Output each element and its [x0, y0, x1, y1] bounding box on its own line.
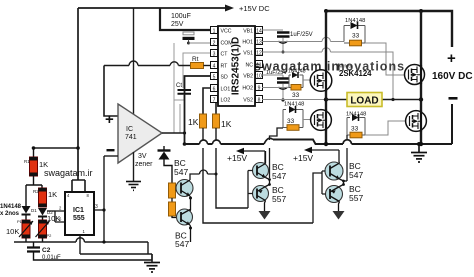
svg-text:+15V: +15V — [293, 153, 313, 163]
resistor Rb (base chain bottom) — [169, 202, 176, 216]
svg-text:1N4148: 1N4148 — [345, 18, 365, 24]
555 pin stubs — [55, 211, 65, 222]
svg-text:100uF: 100uF — [171, 13, 191, 20]
svg-text:2: 2 — [213, 41, 216, 47]
wire driver1 PNP collector to ground arrow — [265, 201, 266, 212]
wire R1 to diode node — [26, 176, 42, 206]
bus right half-bridge x=421 — [420, 11, 422, 144]
transistor Q1 BC547 (zener stage top) — [176, 180, 193, 197]
svg-text:LOAD: LOAD — [350, 96, 378, 107]
ground arrow driver2 — [333, 211, 345, 220]
svg-text:RT: RT — [221, 64, 229, 70]
svg-text:VB1: VB1 — [243, 29, 253, 35]
svg-text:R1: R1 — [24, 159, 30, 164]
wire RT line y=65.5 with hops at x=133.5 and x=174 — [104, 65, 191, 67]
mosfet M3 — [311, 110, 332, 131]
driver2 +15V arrow — [307, 150, 339, 162]
555 ground pin with hop under y=242 — [80, 235, 152, 254]
LOAD box — [347, 93, 382, 107]
mosfet M1 2SK4124 — [310, 70, 332, 92]
mosfet M2 2SK4124 — [405, 65, 425, 85]
wire driver1 output up to network C — [270, 128, 284, 178]
wire 555 supply split — [72, 180, 85, 192]
capacitor C2 0.01uF — [33, 242, 35, 247]
pot P2 10K — [39, 220, 47, 238]
svg-text:7: 7 — [213, 98, 216, 104]
svg-text:R2: R2 — [33, 189, 39, 194]
wire pots to bottom rail — [26, 238, 43, 242]
svg-text:547: 547 — [349, 170, 363, 180]
diode D1 1N4148 — [22, 206, 31, 214]
wire VS2 / load line — [262, 99, 326, 101]
wire left vertical from +15V rail — [77, 8, 79, 180]
wire VCC drop x=160 — [160, 8, 211, 30]
svg-text:1N4148: 1N4148 — [284, 102, 304, 108]
label 160V DC minus — [449, 97, 458, 100]
wire cap to COM pin2 — [189, 42, 212, 44]
wire CT line x=183 — [183, 53, 211, 88]
svg-text:VB2: VB2 — [243, 74, 253, 80]
HV bus rail y=11 — [326, 11, 452, 47]
svg-text:1: 1 — [213, 29, 216, 35]
svg-text:D1: D1 — [31, 208, 37, 213]
wire inverting input down to 555 out — [103, 156, 105, 242]
svg-text:x 2nos: x 2nos — [0, 211, 20, 217]
svg-text:P1: P1 — [17, 219, 23, 224]
svg-text:557: 557 — [272, 194, 286, 204]
svg-text:1K: 1K — [48, 190, 57, 199]
wire ground rail y=144 with hops — [185, 140, 453, 145]
svg-text:+15V DC: +15V DC — [239, 4, 270, 13]
ground arrow driver1 — [259, 211, 271, 220]
wire driver1 emitters to output — [266, 178, 270, 187]
wire driver2 base input — [313, 173, 322, 223]
+15V DC arrow — [225, 5, 234, 12]
wire network D to M4 gate — [365, 121, 406, 135]
wire Rb to base2 — [172, 216, 181, 218]
wire +15V top rail — [78, 7, 226, 9]
svg-text:33: 33 — [287, 118, 295, 125]
wire load line — [326, 99, 421, 101]
svg-text:LO2: LO2 — [221, 98, 231, 104]
wire Ra to base1 — [176, 189, 182, 191]
wire driver2 PNP collector to ground arrow — [339, 202, 340, 212]
svg-text:33: 33 — [351, 126, 359, 133]
svg-text:swagatam.ir: swagatam.ir — [44, 168, 93, 178]
svg-text:+15V: +15V — [227, 153, 247, 163]
svg-text:1N4148: 1N4148 — [0, 204, 22, 210]
transistor Q5 BC547 driver2 — [325, 162, 343, 180]
svg-text:555: 555 — [73, 215, 85, 222]
resistor Rt — [191, 63, 204, 69]
wire LO2 down to driver1 base — [216, 128, 248, 208]
svg-text:5: 5 — [213, 75, 216, 81]
wire driver2 bases — [322, 171, 326, 194]
svg-text:12: 12 — [256, 51, 262, 57]
svg-text:3: 3 — [95, 204, 98, 210]
svg-text:HO1: HO1 — [242, 40, 253, 46]
wire network A to M2 gate — [365, 43, 405, 75]
svg-text:+: + — [105, 111, 114, 128]
svg-text:1uF/25V: 1uF/25V — [290, 32, 313, 38]
capacitor 100uF/25V — [171, 13, 195, 45]
svg-text:1K: 1K — [188, 117, 199, 127]
svg-text:HO2: HO2 — [242, 86, 253, 92]
wire op-amp V- to ground — [133, 152, 135, 181]
wire minus down to rail — [451, 104, 453, 144]
capacitor Ct — [174, 83, 191, 100]
mosfet M4 — [406, 111, 427, 132]
wire network C to M3 gate — [303, 119, 311, 121]
wire op-amp + input — [104, 66, 118, 117]
wire SD line — [185, 76, 212, 144]
left rail to R1 — [34, 147, 79, 149]
capacitor 1uF/25V (VB2) — [262, 75, 283, 78]
svg-text:+: + — [447, 50, 456, 67]
svg-text:swagatam in: swagatam in — [254, 60, 340, 74]
svg-text:33: 33 — [352, 33, 360, 40]
svg-text:3: 3 — [213, 52, 216, 58]
svg-text:10K: 10K — [6, 227, 19, 236]
IC pins right — [256, 27, 263, 104]
transistor Q6 BC557 driver2 — [326, 186, 343, 203]
wire op-amp - input — [104, 155, 118, 157]
svg-text:1N4148: 1N4148 — [346, 112, 366, 118]
gate network D: diode 1N4148 + resistor 33 — [346, 112, 366, 138]
ground op-amp — [126, 182, 141, 191]
svg-text:741: 741 — [125, 134, 137, 141]
svg-text:6: 6 — [213, 87, 216, 93]
IC1 555 — [65, 192, 94, 235]
wire op-amp output to SD vertical — [162, 132, 185, 134]
gate network B: diode 1N4148 + resistor 33 — [262, 87, 289, 89]
svg-text:LO1: LO1 — [221, 87, 231, 93]
svg-text:10: 10 — [256, 74, 262, 80]
driver1 +15V arrow — [239, 151, 265, 163]
resistor 1K (LO2) — [215, 103, 217, 114]
wire Q1 emitter to Q2 collector — [189, 196, 192, 211]
wire VS1 to load node (hop over bus) — [262, 52, 393, 100]
svg-text:160V DC: 160V DC — [432, 71, 473, 82]
gate network C: diode 1N4148 + resistor 33 — [283, 102, 304, 131]
svg-text:0.01uF: 0.01uF — [42, 255, 61, 261]
resistor Ra (base chain top) — [169, 183, 176, 198]
svg-text:14: 14 — [256, 29, 262, 35]
wire driver1 bases — [248, 171, 253, 209]
bus left half-bridge x=326 — [325, 11, 327, 144]
svg-text:C2: C2 — [42, 247, 51, 254]
resistor R1 1K — [33, 148, 35, 157]
wire COM feed x=174 down — [174, 43, 180, 133]
ground symbol 555 — [151, 254, 153, 262]
gate network A: diode 1N4148 + resistor 33 — [344, 18, 365, 46]
svg-text:4: 4 — [213, 64, 216, 70]
svg-text:9: 9 — [258, 86, 261, 92]
transistor Q4 BC557 driver1 — [253, 186, 269, 202]
svg-text:IC1: IC1 — [73, 207, 84, 214]
svg-text:3V: 3V — [138, 153, 147, 160]
svg-text:25V: 25V — [171, 21, 184, 28]
capacitor 1uF/25V (VB1) — [262, 29, 283, 31]
wire driver2 emitters to output — [340, 179, 348, 187]
transistor Q3 BC547 driver1 — [253, 151, 269, 179]
op-amp U1 741 — [105, 104, 162, 163]
svg-text:NC: NC — [246, 63, 254, 69]
ground symbol right — [418, 144, 420, 152]
svg-text:547: 547 — [272, 171, 286, 181]
bottom wire y=242 with hop at x=80 — [14, 242, 148, 254]
IC pins left — [211, 27, 218, 104]
wire op-amp V+ from rail (x=133.5) with hop over y=65 line — [133, 8, 135, 114]
svg-text:8: 8 — [258, 98, 261, 104]
svg-text:P2: P2 — [47, 233, 53, 238]
wire network B to M1 gate — [303, 79, 311, 81]
svg-text:Rt: Rt — [192, 56, 199, 63]
svg-text:557: 557 — [349, 193, 363, 203]
svg-text:IC: IC — [126, 126, 133, 133]
wire LO1 down to y=223 — [203, 128, 313, 223]
zener 3V — [158, 146, 173, 183]
svg-text:547: 547 — [174, 167, 188, 177]
svg-text:Ct: Ct — [176, 83, 182, 89]
svg-text:zener: zener — [135, 161, 153, 168]
wire Q1 collector to LO2 line — [190, 174, 216, 180]
svg-text:CT: CT — [221, 52, 229, 58]
pot P1 10K — [22, 220, 30, 238]
svg-text:13: 13 — [256, 40, 262, 46]
svg-text:1K: 1K — [221, 119, 232, 129]
svg-text:novations: novations — [337, 60, 405, 74]
resistor 1K (LO1) — [203, 88, 211, 114]
svg-text:547: 547 — [175, 239, 189, 249]
diode D2 1N4148 — [38, 208, 47, 216]
svg-text:COM: COM — [221, 41, 233, 47]
wire driver2 output up to network D — [346, 135, 348, 180]
svg-text:SD: SD — [221, 75, 228, 81]
transistor Q2 BC547 (zener stage bottom) — [177, 209, 193, 225]
svg-text:VCC: VCC — [221, 29, 232, 35]
svg-text:VS1: VS1 — [243, 51, 253, 57]
wire Q2 emitter down — [189, 225, 192, 242]
resistor R2 1K — [39, 188, 47, 207]
IC IRS2453(1)D — [218, 26, 255, 106]
svg-text:33: 33 — [292, 92, 300, 99]
wire HO1 to gate network A (hop over bus) — [262, 41, 344, 43]
svg-text:VS2: VS2 — [243, 98, 253, 104]
